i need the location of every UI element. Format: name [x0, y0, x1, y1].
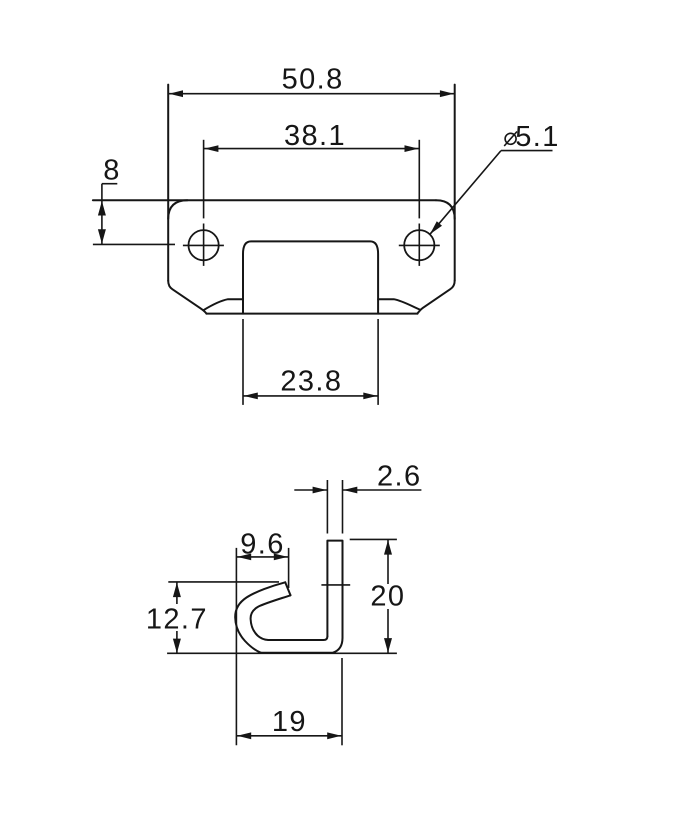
- svg-text:19: 19: [272, 706, 307, 738]
- svg-text:12.7: 12.7: [146, 604, 208, 636]
- svg-text:8: 8: [103, 155, 121, 187]
- svg-text:23.8: 23.8: [280, 365, 342, 397]
- svg-text:9.6: 9.6: [240, 529, 285, 561]
- svg-text:50.8: 50.8: [282, 63, 344, 95]
- svg-text:5.1: 5.1: [515, 121, 560, 153]
- svg-text:38.1: 38.1: [284, 120, 346, 152]
- svg-text:20: 20: [370, 580, 405, 612]
- svg-text:2.6: 2.6: [377, 461, 422, 493]
